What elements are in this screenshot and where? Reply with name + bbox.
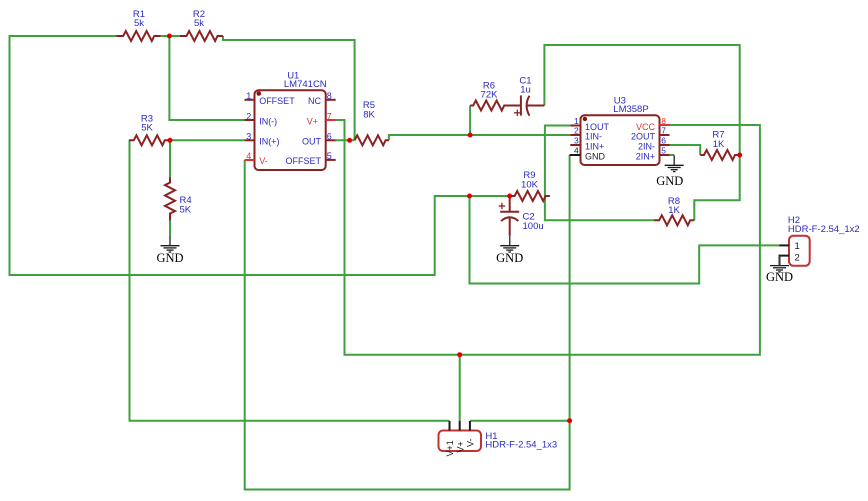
wire R3 left down to H1 pin1 <box>130 140 450 420</box>
svg-text:1: 1 <box>246 91 251 101</box>
resistor R7 <box>700 150 740 160</box>
svg-text:IN(-): IN(-) <box>259 116 277 126</box>
svg-text:4: 4 <box>246 151 251 161</box>
svg-text:4: 4 <box>574 146 579 156</box>
svg-text:V+1: V+1 <box>445 440 455 456</box>
U3 pin 7 lead <box>660 134 670 136</box>
svg-text:NC: NC <box>308 96 321 106</box>
header H2 HDR-F-2.54_1x2 <box>779 215 860 266</box>
svg-text:VCC: VCC <box>636 122 656 132</box>
svg-text:1u: 1u <box>520 85 531 96</box>
svg-text:2IN+: 2IN+ <box>636 152 655 162</box>
svg-text:1: 1 <box>574 116 579 126</box>
wire junction down to R4 <box>169 140 171 177</box>
svg-text:10K: 10K <box>521 180 539 191</box>
svg-text:GND: GND <box>156 251 183 265</box>
resistor R5 <box>355 135 389 145</box>
U1 pin 3 lead <box>245 139 255 141</box>
U1 pin 8 lead <box>326 99 336 101</box>
svg-text:1: 1 <box>795 241 800 252</box>
U3 pin 8 lead <box>660 124 670 126</box>
svg-text:GND: GND <box>656 174 683 188</box>
svg-text:LM358P: LM358P <box>613 104 648 115</box>
wire V+ bus down to H1 pin2 <box>459 355 461 421</box>
resistor R3 <box>129 135 170 145</box>
svg-text:8: 8 <box>661 116 666 126</box>
svg-text:3: 3 <box>246 132 251 142</box>
wire junction up to R6 <box>469 106 471 136</box>
U3 pin 5 lead <box>660 154 670 156</box>
op-amp U1 LM741CN <box>245 71 336 170</box>
ground GND U3 pin5 <box>665 155 684 171</box>
wire U1 pin6 OUT to R5 <box>336 139 355 141</box>
svg-text:GND: GND <box>496 251 523 265</box>
svg-text:V+: V+ <box>455 441 465 452</box>
svg-text:5: 5 <box>661 146 666 156</box>
junction R3-pin3 <box>168 138 173 143</box>
wire H1 pin3 right to V- bus <box>470 420 570 422</box>
wire C1 up over to R7 right and down to R8 <box>544 45 739 220</box>
wire H2 pin1 loop to R9 junction <box>470 196 780 284</box>
junction R9 wire left <box>467 194 472 199</box>
wire R2 to R5 top path <box>223 36 355 140</box>
junction OUT-R5 <box>347 138 352 143</box>
svg-text:1IN+: 1IN+ <box>585 142 604 152</box>
wire R3 junction to U1 pin3 <box>170 139 245 141</box>
svg-text:OUT: OUT <box>302 137 322 147</box>
resistor R1 <box>116 31 161 41</box>
junction R1-R2 <box>167 34 172 39</box>
svg-text:GND: GND <box>585 152 606 162</box>
svg-text:2: 2 <box>795 253 800 264</box>
wire R1 to R2 segment <box>161 35 180 37</box>
svg-text:5: 5 <box>327 151 332 161</box>
junction V- H1 pin3 <box>567 418 572 423</box>
wire V- net: U1 pin4 down, bottom bus, up to U3 pin4 <box>245 155 570 490</box>
resistor R9 <box>510 191 550 201</box>
U3 pin 4 lead <box>570 154 581 156</box>
svg-text:OFFSET: OFFSET <box>286 156 322 166</box>
U3 pin 2 lead <box>570 134 580 136</box>
svg-text:72K: 72K <box>481 90 499 101</box>
U1 pin 1 lead <box>245 99 255 101</box>
svg-text:1K: 1K <box>668 205 680 216</box>
svg-text:5k: 5k <box>134 18 144 29</box>
svg-text:IN(+): IN(+) <box>259 137 279 147</box>
svg-text:V-: V- <box>466 438 476 447</box>
op-amp U3 LM358P <box>570 95 670 165</box>
resistor R2 <box>180 31 223 41</box>
wire U3 pin1 left down to R8 left <box>545 126 654 221</box>
U3 pin 3 lead <box>570 144 580 146</box>
svg-text:5k: 5k <box>194 18 204 29</box>
U1 pin 7 lead <box>326 119 336 121</box>
U1 pin 6 lead <box>326 139 336 141</box>
svg-text:V+: V+ <box>307 116 318 126</box>
H1 pin 3 lead <box>469 421 471 431</box>
H2 pin 2 lead and GND wire <box>780 256 790 266</box>
wire R5 jog up to U3 pin2 <box>389 135 570 140</box>
svg-text:2: 2 <box>246 111 251 121</box>
svg-text:5K: 5K <box>141 123 153 134</box>
capacitor C2 <box>499 196 520 236</box>
svg-text:1K: 1K <box>713 139 725 150</box>
svg-text:2IN-: 2IN- <box>638 142 655 152</box>
svg-text:OFFSET: OFFSET <box>259 96 295 106</box>
svg-text:8K: 8K <box>363 110 375 121</box>
ground GND H2 <box>770 256 789 272</box>
H1 pin 1 lead <box>449 421 451 431</box>
svg-text:2OUT: 2OUT <box>631 132 656 142</box>
svg-text:1IN-: 1IN- <box>585 132 602 142</box>
U3 pin 6 lead <box>660 144 670 146</box>
wire R4 bottom to GND <box>169 221 171 236</box>
wire junction to U1 pin2 <box>169 36 244 120</box>
resistor R8 <box>654 215 694 225</box>
resistor R6 <box>470 101 521 111</box>
junction V+ bus H1 <box>457 352 462 357</box>
H1 pin 2 lead <box>459 421 461 431</box>
svg-text:LM741CN: LM741CN <box>284 79 327 90</box>
U3 pin 1 lead <box>570 125 580 127</box>
U1 pin 4 lead <box>245 159 255 161</box>
svg-text:7: 7 <box>661 126 666 136</box>
svg-text:100u: 100u <box>523 221 544 232</box>
ground GND C2 <box>500 236 519 252</box>
wire U3 pin5 stub to GND <box>670 154 675 156</box>
svg-text:6: 6 <box>661 136 666 146</box>
svg-text:V-: V- <box>259 156 268 166</box>
ground GND R4 <box>161 236 180 252</box>
U1 pin 5 lead <box>326 159 336 161</box>
junction R9-C2 <box>507 194 512 199</box>
junction R7 right <box>737 153 742 158</box>
svg-text:GND: GND <box>766 270 793 284</box>
svg-text:8: 8 <box>327 91 332 101</box>
svg-text:1OUT: 1OUT <box>585 122 610 132</box>
wire V+ bus: U1 pin7 right-down, bottom bus, up to U3 pin8 <box>336 120 760 355</box>
wire U3 pin6 to R7 <box>670 145 701 155</box>
svg-text:3: 3 <box>574 136 579 146</box>
svg-text:2: 2 <box>574 126 579 136</box>
svg-text:6: 6 <box>327 132 332 142</box>
header H1 HDR-F-2.54_1x3 <box>439 421 558 457</box>
H2 pin 1 lead <box>779 244 789 246</box>
wire net A top-left horizontal to R1 <box>10 36 511 275</box>
svg-text:5K: 5K <box>180 205 192 216</box>
capacitor C1 <box>514 95 544 116</box>
svg-text:HDR-F-2.54_1x3: HDR-F-2.54_1x3 <box>485 439 557 450</box>
svg-text:HDR-F-2.54_1x2: HDR-F-2.54_1x2 <box>788 224 860 235</box>
junction R5-R6 <box>468 133 473 138</box>
svg-text:7: 7 <box>327 111 332 121</box>
U1 pin 2 lead <box>245 119 255 121</box>
resistor R4 (vertical) <box>165 178 175 221</box>
